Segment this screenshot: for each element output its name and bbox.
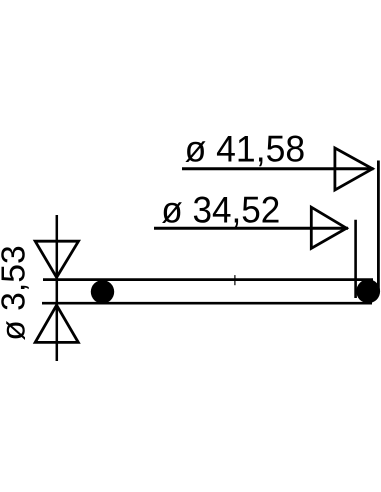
svg-text:ø 41,58: ø 41,58	[185, 128, 306, 170]
svg-text:ø 34,52: ø 34,52	[161, 188, 280, 230]
svg-text:ø 3,53: ø 3,53	[0, 245, 33, 341]
